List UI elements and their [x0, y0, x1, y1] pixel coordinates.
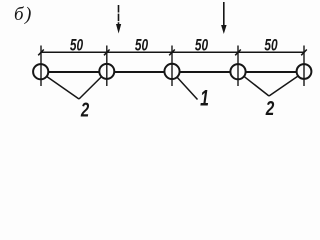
dimension tick 2: [104, 50, 110, 56]
dimension line: [41, 51, 304, 53]
svg-text:50: 50: [70, 37, 83, 55]
svg-text:50: 50: [195, 37, 208, 55]
extension/center line x=238: [237, 46, 239, 87]
beam segment 1-2: [49, 71, 99, 73]
svg-text:50: 50: [264, 37, 277, 55]
dimension tick 5: [301, 50, 307, 56]
roller circle 3: [164, 64, 179, 79]
svg-text:1: 1: [200, 87, 209, 111]
load arrow F1: [116, 5, 121, 34]
beam segment 3-4: [180, 71, 230, 73]
dimension tick 1: [38, 50, 44, 56]
roller circle 1: [33, 64, 48, 79]
roller circle 2: [99, 64, 114, 79]
extension/center line x=172: [171, 46, 173, 87]
svg-text:б): б): [14, 4, 33, 25]
extension/center line x=106.5: [106, 46, 108, 87]
leader from circle 1 to label 2: [46, 76, 79, 99]
extension/center line x=304: [303, 46, 305, 87]
dimension tick 3: [169, 50, 175, 56]
svg-text:2: 2: [265, 97, 274, 118]
beam segment 4-5: [246, 71, 297, 73]
svg-text:2: 2: [80, 98, 89, 118]
leader from circle 3 to label 1: [177, 77, 198, 100]
svg-text:50: 50: [135, 37, 148, 55]
roller circle 4: [230, 64, 245, 79]
roller circle 5: [297, 64, 312, 79]
leader from circle 5 to label 2: [269, 76, 298, 96]
dimension tick 4: [235, 50, 241, 56]
leader from circle 4 to label 2: [244, 76, 269, 96]
load arrow F2: [221, 2, 227, 34]
leader from circle 2 to label 2: [79, 77, 102, 99]
beam segment 2-3: [115, 71, 165, 73]
extension/center line x=41: [40, 46, 42, 87]
